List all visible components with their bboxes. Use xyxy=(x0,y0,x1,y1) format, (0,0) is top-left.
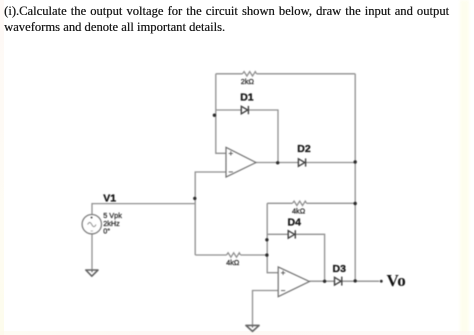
wire resistor R3 to bus xyxy=(307,202,356,204)
svg-text:2kΩ: 2kΩ xyxy=(241,77,255,86)
svg-text:0°: 0° xyxy=(103,227,110,236)
wire D1 branch xyxy=(216,110,278,163)
wire right vertical bus xyxy=(354,74,356,281)
resistor R2 4kΩ (input) xyxy=(227,253,241,257)
ground (U2 input) xyxy=(246,325,259,331)
source V1 xyxy=(82,215,101,234)
diode D2 xyxy=(298,158,305,166)
node D2 to right bus xyxy=(354,160,357,163)
wire U2 inverting input to ground xyxy=(253,291,279,325)
wire top-left segment xyxy=(216,73,243,75)
wire D4 branch xyxy=(267,234,324,281)
wire node B column to op-amp U2 + input xyxy=(267,203,278,272)
edge tint right xyxy=(460,0,469,335)
node V1 / U1- xyxy=(193,197,196,200)
svg-text:D4: D4 xyxy=(288,217,302,229)
edge tint bottom xyxy=(0,331,474,335)
svg-text:Vo: Vo xyxy=(387,271,406,290)
op-amp U2 xyxy=(278,267,309,297)
node 4k feedback to right bus xyxy=(354,202,357,205)
op-amp U1 xyxy=(226,147,256,177)
wire node B to resistor R3 xyxy=(267,202,292,204)
node U2+ column xyxy=(265,253,268,256)
wire U2 output through D3 to Vo xyxy=(309,280,379,282)
node D4 return / U2 output xyxy=(323,280,326,283)
node U1 output / D1 return xyxy=(276,161,279,164)
svg-text:D3: D3 xyxy=(333,263,347,275)
node Vo bus junction xyxy=(354,279,357,282)
node Vo terminal xyxy=(380,280,383,283)
diode D1 xyxy=(241,106,248,114)
resistor R3 4kΩ (U2 feedback) xyxy=(293,201,307,205)
wire op-amp U1 output to D2 and bus xyxy=(256,162,355,164)
svg-text:D1: D1 xyxy=(240,92,254,104)
svg-text:4kΩ: 4kΩ xyxy=(292,207,306,216)
node junction dots xyxy=(193,114,383,283)
diode D3 xyxy=(335,277,342,286)
svg-text:4kΩ: 4kΩ xyxy=(226,258,240,267)
wire node A to resistor R2 xyxy=(195,254,226,256)
edge tint left xyxy=(0,0,4,335)
wire V1 to node A xyxy=(92,204,195,215)
wire left vertical to op-amp U1 + input xyxy=(216,74,226,154)
wire U1 inverting input down to node A xyxy=(195,172,226,255)
wire V1 to ground xyxy=(91,234,93,269)
node D4 column upper xyxy=(265,238,268,241)
wire resistor R2 to node B xyxy=(241,254,268,256)
svg-text:D2: D2 xyxy=(297,143,311,155)
ground (V1) xyxy=(86,270,98,276)
node D1/U1+ junction xyxy=(213,114,216,117)
svg-text:V1: V1 xyxy=(103,192,116,204)
diode D4 xyxy=(288,230,295,238)
resistor R1 2kΩ (top feedback) xyxy=(243,72,257,76)
wire top-right segment xyxy=(257,73,356,75)
